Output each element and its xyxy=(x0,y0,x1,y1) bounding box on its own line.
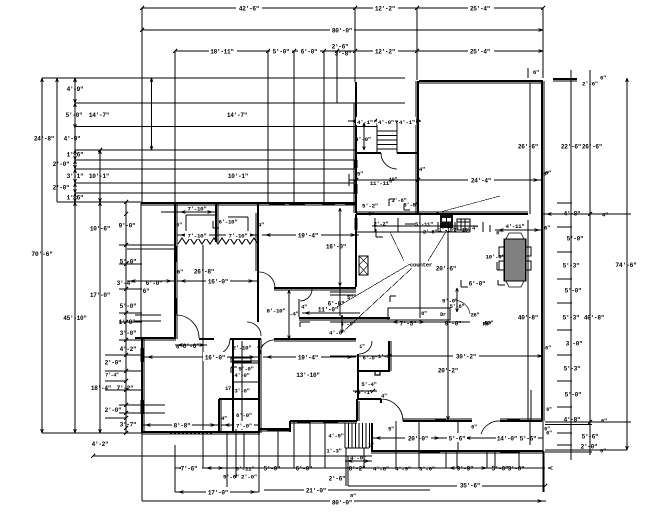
dims 6-6 2-10 4 row xyxy=(175,341,263,358)
svg-text:5'-3": 5'-3" xyxy=(563,263,580,270)
dim 16-0 y=357 xyxy=(144,352,258,362)
svg-text:2'-6": 2'-6" xyxy=(332,44,349,51)
right dim line y=450 xyxy=(545,450,627,452)
svg-text:4'-0": 4'-0" xyxy=(350,455,366,462)
wall y=339 segment xyxy=(199,338,261,340)
dim 11-0 y=313 xyxy=(299,299,360,317)
stair door arc xyxy=(381,153,397,169)
right chain x=627 74-6 xyxy=(626,78,629,450)
svg-text:1": 1" xyxy=(359,344,365,350)
svg-text:6": 6" xyxy=(533,69,539,76)
svg-text:5'-2": 5'-2" xyxy=(362,203,378,210)
svg-text:2'-0": 2'-0" xyxy=(53,161,70,168)
svg-text:4'-9": 4'-9" xyxy=(67,86,84,93)
right stub wall y=78 xyxy=(553,79,577,81)
wall y=421 center segment xyxy=(403,419,472,421)
svg-text:30'-2": 30'-2" xyxy=(456,354,476,361)
left dim chain vertical x=126 xyxy=(124,200,128,435)
svg-text:10'-0": 10'-0" xyxy=(485,254,504,261)
powder room walls xyxy=(357,341,391,399)
bath wall y=382 xyxy=(233,381,259,383)
svg-text:5": 5" xyxy=(347,294,353,301)
labels 5-2 3-6 3-8 in entry xyxy=(362,197,419,210)
counter bracket 6-0 xyxy=(461,280,485,288)
bottom wall drop lines xyxy=(203,421,544,492)
svg-text:6": 6" xyxy=(368,212,374,218)
svg-text:9'-6": 9'-6" xyxy=(223,474,239,481)
svg-text:35'-6": 35'-6" xyxy=(460,483,480,490)
svg-text:6'-0": 6'-0" xyxy=(469,281,486,288)
svg-text:11'-0": 11'-0" xyxy=(318,307,338,314)
upper-right room right wall x=542 xyxy=(542,81,544,421)
wall y=421 left segment xyxy=(290,421,357,423)
svg-text:3'-0": 3'-0" xyxy=(340,321,355,328)
roof dim vertical x=151.5 xyxy=(150,78,153,150)
svg-text:10'-6": 10'-6" xyxy=(90,226,110,233)
svg-text:9'-0": 9'-0" xyxy=(119,223,136,230)
tick and 6 label at top right wall xyxy=(528,68,539,78)
label 5-4 powder xyxy=(361,381,376,388)
right wall bottom verticals xyxy=(530,390,553,492)
roof line y=202 xyxy=(57,201,141,203)
label 6-0 right of hall xyxy=(328,294,353,308)
bottom dim row 80-0 y=501 xyxy=(142,433,546,507)
counter corner brackets kitchen xyxy=(368,212,490,238)
svg-text:17: 17 xyxy=(225,386,231,392)
label 6 and 26-8 living xyxy=(177,269,214,276)
dim 19-4 y=357 right xyxy=(263,352,356,362)
roof line y=103 xyxy=(75,102,405,104)
dim line 18-11 / 5-0 / 6-0 / 2-6 / 3-8 / 12-2 / 25-4 (y=51) xyxy=(173,44,543,58)
living door arc top xyxy=(259,272,275,288)
closet inner lines xyxy=(186,215,248,233)
labels 11-11 and 10 under stairs xyxy=(349,174,397,187)
bottom dim row 17-0 21-0 y=492 xyxy=(175,485,430,497)
svg-text:4": 4" xyxy=(602,212,608,219)
svg-text:5'-11": 5'-11" xyxy=(415,221,433,228)
svg-text:25'-4": 25'-4" xyxy=(470,49,490,56)
bedroom1 closet dims xyxy=(161,206,264,240)
right dim line y=214 xyxy=(543,212,631,216)
hall jog wall xyxy=(357,399,381,421)
roof line y=193 xyxy=(75,192,356,194)
svg-text:19'-4": 19'-4" xyxy=(298,233,318,240)
svg-text:40'-8": 40'-8" xyxy=(584,315,604,322)
baseline y=433 left xyxy=(42,432,142,434)
svg-text:45'-10": 45'-10" xyxy=(63,315,87,322)
dim line 80-0 (y=30) xyxy=(140,25,543,35)
left small dim arrows 6-0 porch xyxy=(127,280,175,289)
bath wall y=399 xyxy=(219,398,259,400)
svg-text:4'-11": 4'-11" xyxy=(505,223,524,230)
svg-text:20'-6": 20'-6" xyxy=(436,266,456,273)
svg-text:19'-4": 19'-4" xyxy=(298,355,318,362)
window on y=421 center xyxy=(435,419,446,422)
steps dims xyxy=(326,433,374,455)
svg-text:16'-0": 16'-0" xyxy=(205,355,225,362)
svg-text:6": 6" xyxy=(546,407,552,413)
right dim texts column xyxy=(545,144,637,455)
svg-text:4": 4" xyxy=(301,305,307,311)
label 6 right wall bottom xyxy=(546,431,552,437)
svg-text:12'-2": 12'-2" xyxy=(375,49,395,56)
labels 3-0 4-0 kitchen left xyxy=(329,315,356,337)
roof line y=160 xyxy=(75,159,356,161)
svg-text:5'-6": 5'-6" xyxy=(582,434,599,441)
roof line y=127 xyxy=(75,126,377,128)
svg-text:6'-0": 6'-0" xyxy=(236,412,252,419)
upper-right room top wall y=81 xyxy=(419,81,543,83)
kitchen stove grid block xyxy=(457,219,470,230)
svg-text:4": 4" xyxy=(472,226,478,232)
nook dim 4-11 xyxy=(495,223,550,237)
svg-text:7'-10": 7'-10" xyxy=(187,233,206,240)
wall y=421 right segment xyxy=(500,419,542,421)
svg-text:5'-0": 5'-0" xyxy=(565,392,582,399)
bottom wall bedroom area y=432 xyxy=(142,432,260,434)
range swing arc xyxy=(455,300,493,327)
svg-text:2'-0": 2'-0" xyxy=(105,407,122,414)
svg-text:10": 10" xyxy=(389,177,398,183)
dim 8-10 -4 hall xyxy=(266,290,298,339)
closet shelves y=291 xyxy=(330,292,356,295)
svg-text:20'-0": 20'-0" xyxy=(408,436,428,443)
svg-text:17'-0": 17'-0" xyxy=(90,292,110,299)
svg-text:24'-8": 24'-8" xyxy=(34,136,54,143)
svg-text:5'-3": 5'-3" xyxy=(564,366,581,373)
svg-text:18'-11": 18'-11" xyxy=(210,49,234,56)
svg-text:R6″: R6″ xyxy=(483,322,492,328)
svg-text:4'-0": 4'-0" xyxy=(355,136,371,143)
svg-text:26'-6": 26'-6" xyxy=(518,144,538,151)
svg-text:3'-0": 3'-0" xyxy=(419,466,435,473)
svg-text:6": 6" xyxy=(600,75,606,82)
windows on x=176 wall xyxy=(175,246,178,314)
dim row 7-5 9-0 y=322 xyxy=(330,321,491,328)
bedroom1 left wall x=176 xyxy=(175,203,177,339)
svg-text:6": 6" xyxy=(545,170,551,177)
svg-text:4'-8": 4'-8" xyxy=(373,466,389,473)
svg-text:6": 6" xyxy=(143,288,150,295)
svg-text:6": 6" xyxy=(471,425,477,431)
stair bottom wall y=153 xyxy=(356,152,418,154)
bath fixture box xyxy=(231,358,251,362)
bottom dim texts row2 xyxy=(223,474,345,483)
svg-text:6'-0": 6'-0" xyxy=(328,301,345,308)
svg-text:74'-6": 74'-6" xyxy=(615,262,637,269)
label 5 at left wall xyxy=(357,171,363,178)
bath door arc SW xyxy=(214,339,230,355)
svg-text:1": 1" xyxy=(368,443,374,449)
svg-text:1'-6": 1'-6" xyxy=(67,195,84,202)
svg-text:1'-8": 1'-8" xyxy=(119,319,136,326)
kitchen top wall y=214 xyxy=(356,212,528,214)
svg-text:7'-10": 7'-10" xyxy=(228,233,247,240)
exterior steps xyxy=(345,423,370,448)
svg-text:3'-0": 3'-0" xyxy=(566,341,583,348)
svg-text:6": 6" xyxy=(601,418,607,425)
svg-text:4'-0": 4'-0" xyxy=(378,119,394,126)
svg-text:6": 6" xyxy=(546,431,552,437)
label 6-0 right of 19-4 xyxy=(363,354,393,362)
bath dims 5-0 4-0 xyxy=(231,345,254,430)
svg-text:14'-0": 14'-0" xyxy=(497,436,517,443)
right dim texts 2-6 xyxy=(582,75,606,88)
porch divider x=458 xyxy=(457,421,459,451)
svg-text:6": 6" xyxy=(545,345,551,352)
left exterior wall x=356 (stair side) xyxy=(354,82,356,213)
roof line y=150 xyxy=(75,149,356,151)
svg-text:4": 4" xyxy=(221,416,227,422)
svg-text:12'-2": 12'-2" xyxy=(375,6,395,13)
svg-text:5'-3": 5'-3" xyxy=(563,315,580,322)
svg-text:25'-4": 25'-4" xyxy=(470,6,490,13)
labels 4-11 6 nook left xyxy=(0,0,1,1)
hall-kitchen wall y=288 xyxy=(274,288,356,290)
right chain x=571 xyxy=(557,70,572,460)
roof edge vertical x=142 xyxy=(141,78,143,204)
svg-text:21'-0": 21'-0" xyxy=(306,488,326,495)
left dim texts column xyxy=(31,86,248,448)
svg-text:5'-0": 5'-0" xyxy=(273,49,290,56)
svg-text:3'-7": 3'-7" xyxy=(120,422,137,429)
bed3 door arc xyxy=(260,340,274,354)
svg-text:2'-0": 2'-0" xyxy=(581,444,598,451)
svg-text:5'-0": 5'-0" xyxy=(492,466,509,473)
svg-text:5'-6": 5'-6" xyxy=(520,436,537,443)
dim line 42-6 / 12-2 / 25-4 (top row, y=8) xyxy=(140,4,545,13)
svg-text:4": 4" xyxy=(381,394,387,400)
wall jog x=290 xyxy=(289,421,291,432)
nook corner bracket xyxy=(498,280,505,285)
roof line y=183 xyxy=(75,182,356,184)
svg-text:6'-11": 6'-11" xyxy=(235,466,254,473)
hall door arc bottom xyxy=(381,399,403,421)
porch lines xyxy=(127,245,175,321)
kitchen counter edge y=232 xyxy=(356,231,470,233)
svg-text:8": 8" xyxy=(421,311,427,317)
windows on x=142 wall xyxy=(141,348,144,414)
dim extension verticals from top rows xyxy=(142,8,543,203)
svg-text:2'-2": 2'-2" xyxy=(374,222,389,228)
svg-text:22'-6": 22'-6" xyxy=(561,144,581,151)
svg-text:2'-0": 2'-0" xyxy=(105,360,122,367)
dim 26-6 vertical x=530 xyxy=(518,83,538,214)
dim 24-4 y=180 xyxy=(354,166,549,185)
svg-text:3'-0": 3'-0" xyxy=(508,466,525,473)
svg-text:1'-3": 1'-3" xyxy=(326,448,341,455)
svg-text:4'-2": 4'-2" xyxy=(120,346,137,353)
left dim chain vertical x=75 xyxy=(74,78,77,433)
bedroom2 door arc xyxy=(176,315,199,338)
svg-text:16'-0": 16'-0" xyxy=(326,244,346,251)
svg-text:3'-0": 3'-0" xyxy=(120,330,137,337)
svg-text:14'-7": 14'-7" xyxy=(227,112,247,119)
dim 40-8 vertical x=528 xyxy=(518,220,538,420)
range area dims xyxy=(390,288,464,312)
svg-text:6'-0": 6'-0" xyxy=(301,49,318,56)
svg-text:6": 6" xyxy=(600,448,606,455)
stair treads xyxy=(377,123,397,153)
svg-text:8'-2": 8'-2" xyxy=(349,466,366,473)
svg-text:4'-8": 4'-8" xyxy=(564,417,581,424)
dotted porch strip xyxy=(170,431,212,434)
svg-text:18'-4": 18'-4" xyxy=(91,385,111,392)
svg-text:7'-0": 7'-0" xyxy=(236,423,252,430)
svg-text:-4": -4" xyxy=(289,311,298,318)
baseline y=456 xyxy=(91,454,372,458)
upper-right room left wall x=418 xyxy=(416,81,418,213)
svg-text:9'-9": 9'-9" xyxy=(457,466,474,473)
porch dim row y=438 xyxy=(372,425,550,443)
svg-text:9'-0": 9'-0" xyxy=(445,321,462,328)
roof line y=78 xyxy=(42,77,405,79)
label 13-10 xyxy=(296,372,320,379)
counter label and leaders xyxy=(337,196,500,330)
svg-text:5'-0": 5'-0" xyxy=(567,236,584,243)
bottom left verticals xyxy=(175,445,348,492)
svg-text:2'-6": 2'-6" xyxy=(329,476,346,483)
svg-text:8'-10": 8'-10" xyxy=(266,308,285,315)
dims 4-1 4 hall bottom xyxy=(353,389,387,400)
svg-text:80'-0": 80'-0" xyxy=(332,500,352,507)
counter corner bracket xyxy=(300,322,310,327)
left chain small arrows x=75 xyxy=(74,78,77,206)
windows on x=356 wall xyxy=(355,160,358,194)
dim 16-0 vertical x=340 xyxy=(326,208,346,316)
family door arc xyxy=(481,421,500,434)
svg-text:6'-10": 6'-10" xyxy=(218,219,237,226)
closet bottom box left wall xyxy=(219,399,221,433)
svg-text:4'-2": 4'-2" xyxy=(92,441,109,448)
svg-text:14'-7": 14'-7" xyxy=(89,112,109,119)
svg-text:42'-6": 42'-6" xyxy=(239,6,259,13)
porch bottom wall y=451 xyxy=(371,451,543,453)
svg-text:6": 6" xyxy=(177,269,183,276)
right dim line y=422 xyxy=(545,407,631,425)
svg-text:20'-2": 20'-2" xyxy=(438,368,458,375)
closet zigzag xyxy=(178,238,258,244)
living room right wall x=258 xyxy=(256,203,258,322)
dim 30-2 y=356 xyxy=(330,345,551,361)
svg-text:4'-9": 4'-9" xyxy=(328,433,343,440)
svg-text:counter: counter xyxy=(410,262,433,269)
svg-text:5'-0": 5'-0" xyxy=(565,288,582,295)
porch windows y=451 xyxy=(420,450,520,453)
porch left wall x=372 xyxy=(371,423,373,451)
svg-text:8": 8" xyxy=(496,231,502,237)
svg-text:4": 4" xyxy=(258,222,264,229)
svg-text:2'-0": 2'-0" xyxy=(241,474,257,481)
windows on y=421 left xyxy=(297,420,338,423)
svg-text:24'-4": 24'-4" xyxy=(471,178,491,185)
vertical dim line x=203 living xyxy=(202,245,204,430)
svg-text:7'-6": 7'-6" xyxy=(181,466,198,473)
nook dim 10-0 xyxy=(485,254,504,261)
bath shelf y=362 xyxy=(233,361,259,363)
svg-text:5'-0": 5'-0" xyxy=(120,303,137,310)
kitchen small dims row xyxy=(372,218,478,236)
wall below pantry x=356 xyxy=(355,214,357,287)
left chain ticks x=126 xyxy=(124,212,128,430)
svg-text:80'-0": 80'-0" xyxy=(332,28,352,35)
svg-text:6'-6": 6'-6" xyxy=(183,343,200,350)
island box xyxy=(388,308,450,320)
dim 8-8 y=425 xyxy=(142,421,219,430)
right chain x=590 xyxy=(589,70,591,455)
left dim chain vertical x=57 xyxy=(56,78,59,202)
svg-text:7'-10": 7'-10" xyxy=(187,206,206,213)
dim 20-2 vertical x=448 xyxy=(438,232,458,420)
dim 16-0 living y=281 xyxy=(177,276,257,286)
svg-text:5'-0": 5'-0" xyxy=(264,466,281,473)
bottom wall step y=429 xyxy=(260,429,290,431)
svg-text:3'-8": 3'-8" xyxy=(403,202,418,209)
svg-text:7'-4": 7'-4" xyxy=(105,373,119,379)
kitchen sink dark block xyxy=(440,215,453,228)
svg-text:Dr: Dr xyxy=(440,312,446,318)
svg-text:5": 5" xyxy=(388,427,394,433)
bath dims 4 6-0 7-0 xyxy=(221,412,259,430)
porch left line x=141 xyxy=(140,203,142,339)
left chain small arrows x=100 xyxy=(99,150,102,206)
dim 19-4 y=235 xyxy=(262,230,359,240)
powder room door arc xyxy=(359,341,372,354)
svg-text:4'-1": 4'-1" xyxy=(357,389,372,396)
svg-text:70'-6": 70'-6" xyxy=(31,251,53,258)
top wall of house y=203 xyxy=(141,203,356,205)
svg-text:40'-8": 40'-8" xyxy=(518,315,538,322)
roof line y=169 xyxy=(75,168,356,170)
svg-text:5'-6": 5'-6" xyxy=(449,436,466,443)
svg-text:2'-8": 2'-8" xyxy=(423,230,437,236)
svg-text:26'-6": 26'-6" xyxy=(582,144,602,151)
svg-text:6": 6" xyxy=(544,225,550,232)
svg-text:5'-0": 5'-0" xyxy=(66,112,83,119)
dim 4-1 4-0 4-1 over stairs y=121 xyxy=(348,117,421,126)
svg-text:2'-10": 2'-10" xyxy=(454,228,471,234)
window on x=356 kitchen xyxy=(355,218,358,230)
left dim chain vertical x=42 (70-6) xyxy=(41,78,44,433)
dim 4-0 steps bottom xyxy=(345,455,372,463)
svg-text:2'-0": 2'-0" xyxy=(53,185,70,192)
pantry hatch block xyxy=(359,256,368,275)
svg-text:17'-0": 17'-0" xyxy=(208,490,228,497)
svg-text:4'-9": 4'-9" xyxy=(395,466,411,473)
window hatches on top wall xyxy=(269,202,356,205)
bottom dim row 35-6 y=486 xyxy=(348,481,547,500)
left dim chain vertical x=100 xyxy=(98,148,102,433)
svg-text:13'-10": 13'-10" xyxy=(296,372,320,379)
svg-text:3'-1": 3'-1" xyxy=(67,173,84,180)
svg-text:1'-8": 1'-8" xyxy=(378,354,392,360)
bath right wall x=259 xyxy=(259,339,261,433)
svg-text:4": 4" xyxy=(419,166,425,173)
hall door arc xyxy=(300,289,312,311)
svg-text:7'-5": 7'-5" xyxy=(400,321,417,328)
bath dims 17 3-0 xyxy=(225,386,250,395)
bedroom3 top wall y=339 xyxy=(274,339,356,341)
bath left wall x=233 xyxy=(232,339,234,433)
svg-text:5'-4": 5'-4" xyxy=(361,381,376,388)
svg-text:6'-0": 6'-0" xyxy=(296,466,313,473)
svg-text:16'-0": 16'-0" xyxy=(208,279,228,286)
svg-text:4'-1": 4'-1" xyxy=(399,119,415,126)
living room bottom door arc xyxy=(247,322,261,336)
svg-text:26": 26" xyxy=(471,313,480,319)
svg-text:4": 4" xyxy=(257,344,263,351)
svg-text:1'-6": 1'-6" xyxy=(67,152,84,159)
